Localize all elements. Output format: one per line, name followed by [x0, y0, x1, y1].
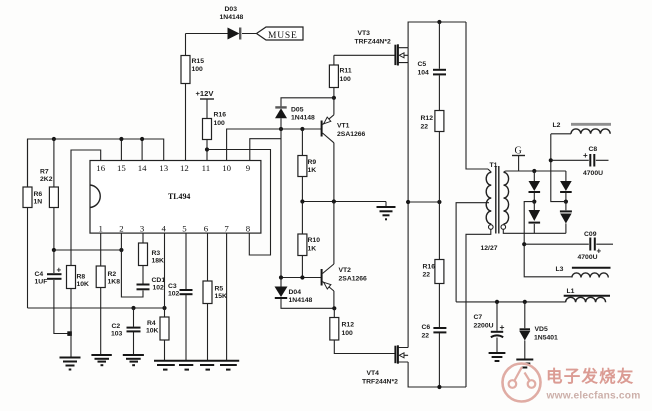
svg-text:VT4: VT4 — [367, 370, 380, 377]
ground G6 below C7 — [489, 353, 506, 361]
node D05 base junction — [279, 127, 283, 131]
node top rail left diode junction — [532, 169, 536, 173]
elecfans logo icon — [503, 364, 541, 402]
node C7 junction — [495, 300, 499, 304]
wire pin 2 down — [121, 233, 143, 297]
svg-text:R4: R4 — [147, 320, 156, 327]
svg-text:R11: R11 — [340, 68, 352, 75]
wire pin 3 to R3 — [142, 233, 144, 243]
svg-text:TL494: TL494 — [168, 192, 190, 201]
node bus-pin15 junction — [119, 137, 123, 141]
node half-bridge mid junction — [406, 200, 410, 204]
svg-text:L2: L2 — [553, 122, 561, 129]
svg-text:C09: C09 — [584, 231, 597, 238]
wire primary center tap — [456, 203, 489, 302]
wire bridge mid-right to C8 node — [551, 134, 566, 202]
svg-text:1N4148: 1N4148 — [291, 115, 315, 122]
ground G2 below R2 — [91, 355, 111, 365]
node VT1 collector rail junction — [332, 199, 336, 203]
node R16 pin11 junction — [205, 147, 209, 151]
diode VD5 1N5401 — [519, 302, 558, 359]
svg-text:100: 100 — [340, 76, 352, 83]
wire pin 6 to R5 — [207, 233, 209, 281]
diode D05 1N4148 — [275, 98, 334, 129]
ground G1 below R8 — [60, 358, 81, 370]
resistor R5 — [203, 281, 227, 360]
wire pin 4 down to rail — [164, 233, 166, 308]
resistor R8 — [67, 266, 90, 358]
wire bridge mid-left to L3 — [524, 202, 572, 277]
ground G3 below C2 — [123, 355, 144, 365]
svg-text:VD5: VD5 — [535, 326, 548, 333]
node pin2 rail junction — [119, 248, 123, 252]
svg-text:TRF244N*2: TRF244N*2 — [362, 379, 398, 386]
node C09 line junction — [522, 242, 526, 246]
capacitor C7 — [474, 302, 505, 353]
svg-text:13: 13 — [159, 163, 168, 173]
svg-text:R2: R2 — [108, 271, 117, 278]
svg-text:100: 100 — [214, 120, 226, 127]
svg-text:16: 16 — [96, 163, 105, 173]
svg-text:104: 104 — [418, 70, 430, 77]
diode VD2 bridge bottom-left — [529, 202, 541, 234]
svg-text:C5: C5 — [418, 61, 427, 68]
node D04 top junction — [279, 275, 283, 279]
resistor R11 — [329, 55, 351, 98]
resistor R7 — [40, 139, 58, 250]
wire left rail R6 to C2,R4 — [28, 307, 165, 309]
ground G7 below VD5 — [516, 360, 533, 368]
svg-text:R16: R16 — [214, 112, 227, 119]
svg-text:C8: C8 — [589, 146, 598, 153]
wire L2 left to C8 node — [551, 133, 571, 135]
svg-text:R12: R12 — [342, 322, 355, 329]
wire pin10 to VT1 base — [227, 129, 321, 161]
svg-text:2K2: 2K2 — [40, 176, 53, 183]
wire pin 1 to R2 — [100, 233, 102, 266]
transistor VT3 TRFZ44N*2 MOSFET — [355, 30, 409, 66]
wire VT3 source to VT4 drain — [407, 48, 409, 348]
svg-text:1K: 1K — [308, 246, 317, 253]
svg-text:10K: 10K — [77, 281, 90, 288]
node R4 pin4 junction — [162, 306, 166, 310]
inductor L1 — [564, 288, 610, 302]
svg-text:9: 9 — [246, 163, 251, 173]
node bottom rail C6 junction — [437, 385, 441, 389]
transistor VT4 TRF244N*2 MOSFET — [362, 345, 408, 385]
svg-text:18K: 18K — [152, 258, 165, 265]
svg-text:T1: T1 — [490, 162, 498, 169]
node R10 bottom junction — [300, 275, 304, 279]
svg-text:C4: C4 — [35, 271, 44, 278]
transistor VT1 2SA1266 — [322, 98, 366, 202]
wire pin9 net down to VT2 base line — [281, 129, 321, 278]
svg-text:+: + — [597, 247, 602, 256]
svg-text:2200U: 2200U — [474, 323, 494, 330]
ground G5 mid rail — [377, 202, 396, 220]
node bridge mid-left junction — [532, 200, 536, 204]
node bus-R7 junction — [52, 137, 56, 141]
svg-text:8: 8 — [246, 224, 251, 234]
wire secondary top rail — [506, 170, 566, 172]
wire pin9 jog — [250, 139, 281, 161]
transistor VT2 2SA1266 — [322, 202, 367, 309]
svg-text:4700U: 4700U — [583, 170, 603, 177]
svg-text:102: 102 — [153, 285, 165, 292]
resistor R6 — [23, 139, 42, 308]
resistor R15 — [181, 34, 204, 161]
diode VD1 bridge top-left — [529, 171, 541, 202]
svg-text:1K: 1K — [308, 167, 317, 174]
resistor R16 22 — [423, 202, 444, 327]
wire R11 to VT3 gate — [334, 54, 395, 56]
inductor L3 — [556, 266, 611, 278]
svg-text:电子发烧友: 电子发烧友 — [546, 366, 635, 386]
svg-text:102: 102 — [168, 291, 180, 298]
resistor R12 22 — [421, 111, 444, 203]
node G tap — [512, 146, 525, 172]
wire pin 7 to ground bar — [226, 233, 228, 360]
capacitor C4 — [35, 250, 70, 334]
svg-text:R9: R9 — [308, 159, 317, 166]
svg-text:11: 11 — [202, 163, 210, 173]
svg-text:R10: R10 — [308, 237, 321, 244]
svg-text:1UF: 1UF — [35, 279, 48, 286]
svg-text:R8: R8 — [77, 274, 86, 281]
wire bridge bottom rail to secondary bottom — [503, 229, 566, 233]
svg-text:100: 100 — [342, 330, 354, 337]
wire VT4 source to bottom rail — [408, 362, 466, 387]
transformer T1 — [481, 162, 509, 252]
svg-text:C2: C2 — [112, 323, 121, 330]
svg-text:VT2: VT2 — [339, 267, 352, 274]
svg-text:D03: D03 — [225, 6, 238, 13]
svg-text:+12V: +12V — [196, 89, 215, 98]
svg-text:D05: D05 — [291, 107, 304, 114]
resistor R9 — [298, 129, 317, 202]
resistor R3 — [139, 243, 165, 284]
wire pin 5 to C3 — [185, 233, 187, 289]
wire primary top from top rail — [466, 22, 488, 169]
svg-text:4: 4 — [161, 224, 166, 234]
svg-text:1N: 1N — [34, 199, 43, 206]
wire mid rail to divider — [408, 201, 439, 203]
svg-text:22: 22 — [422, 333, 430, 340]
wire MUSE line — [186, 33, 257, 35]
node R7-C4 junction — [52, 248, 56, 252]
svg-text:1: 1 — [98, 224, 102, 234]
svg-text:C7: C7 — [474, 314, 483, 321]
node bus-pin14 junction — [140, 137, 144, 141]
capacitor C6 — [422, 324, 447, 387]
resistor R16 — [203, 112, 227, 161]
svg-text:2SA1266: 2SA1266 — [339, 276, 368, 283]
resistor R10 — [298, 202, 320, 278]
wire pin 16 to R8 — [71, 150, 101, 266]
node C8 L2 junction — [549, 158, 553, 162]
capacitor C2 — [111, 308, 141, 355]
wire primary bottom to bottom rail — [466, 229, 491, 387]
svg-text:7: 7 — [224, 224, 229, 234]
svg-text:2: 2 — [119, 224, 123, 234]
svg-text:3: 3 — [140, 224, 145, 234]
inductor L2 — [553, 122, 612, 134]
svg-text:1K8: 1K8 — [108, 279, 121, 286]
resistor R4 — [146, 308, 169, 360]
node VT2 emitter R12 junction — [332, 306, 336, 310]
node MUSE tag — [257, 27, 304, 41]
svg-text:R7: R7 — [40, 169, 49, 176]
svg-text:+: + — [500, 322, 505, 332]
node C2 junction — [131, 306, 135, 310]
svg-text:L1: L1 — [567, 288, 575, 295]
wire output line to L1 — [456, 301, 565, 303]
svg-text:TRFZ44N*2: TRFZ44N*2 — [355, 39, 391, 46]
svg-text:C3: C3 — [168, 283, 177, 290]
svg-text:R16: R16 — [423, 264, 436, 271]
svg-text:R6: R6 — [34, 191, 43, 198]
wire VT3 drain to top rail — [408, 22, 466, 48]
op-amp U1 TL494 IC body — [90, 161, 261, 234]
svg-text:22: 22 — [423, 272, 431, 279]
svg-text:C6: C6 — [422, 324, 431, 331]
capacitor C3 — [168, 283, 193, 360]
svg-text:CD1: CD1 — [152, 277, 166, 284]
svg-text:6: 6 — [204, 224, 209, 234]
wire mid ground rail — [302, 201, 386, 203]
diode VD4 bridge bottom-right — [560, 202, 572, 234]
svg-text:+: + — [583, 151, 588, 160]
node C4-R8 square junction — [67, 331, 72, 336]
node R9 rail junction — [300, 199, 304, 203]
svg-text:R12: R12 — [421, 115, 434, 122]
node +12V supply — [196, 89, 215, 119]
wire rail pin2 feedback — [54, 249, 122, 251]
node VT1 emitter top junction — [332, 96, 336, 100]
node VD5 junction — [523, 300, 527, 304]
svg-text:2SA1266: 2SA1266 — [337, 131, 366, 138]
svg-text:L3: L3 — [556, 266, 564, 273]
svg-text:+: + — [57, 266, 62, 275]
svg-text:D04: D04 — [289, 289, 302, 296]
svg-text:1N4148: 1N4148 — [220, 14, 244, 21]
diode VD3 bridge top-right — [560, 171, 572, 202]
node R9 top junction — [300, 127, 304, 131]
wire pin11 to pin8 loop — [207, 150, 271, 256]
svg-text:12: 12 — [180, 163, 189, 173]
svg-text:10K: 10K — [146, 328, 159, 335]
node divider mid junction — [437, 200, 441, 204]
svg-text:R5: R5 — [215, 286, 224, 293]
node bridge mid-right junction — [564, 200, 568, 204]
svg-text:100: 100 — [192, 66, 204, 73]
resistor R12 — [330, 308, 395, 353]
svg-text:1N4148: 1N4148 — [289, 297, 313, 304]
svg-text:R15: R15 — [192, 58, 205, 65]
svg-text:12/27: 12/27 — [481, 245, 498, 252]
svg-text:R3: R3 — [152, 250, 161, 257]
svg-text:VT3: VT3 — [358, 30, 371, 37]
resistor R2 — [96, 266, 120, 355]
svg-text:1N5401: 1N5401 — [534, 335, 558, 342]
diode D03 1N4148 — [220, 6, 244, 40]
svg-text:4700U: 4700U — [578, 254, 598, 261]
diode D04 1N4148 — [275, 278, 335, 309]
svg-text:15K: 15K — [215, 293, 228, 300]
wire top bus pins 13,14,15 to R6,R7 — [28, 139, 164, 187]
svg-text:10: 10 — [222, 163, 231, 173]
node top rail C5 junction — [437, 20, 441, 24]
capacitor C5 — [418, 22, 447, 111]
svg-text:5: 5 — [182, 224, 187, 234]
ground G4 shared bar — [154, 361, 239, 370]
svg-text:14: 14 — [138, 163, 147, 173]
capacitor C8 — [551, 146, 609, 177]
svg-text:103: 103 — [111, 331, 123, 338]
svg-text:MUSE: MUSE — [268, 31, 298, 41]
svg-text:G: G — [515, 146, 522, 157]
svg-text:VT1: VT1 — [337, 123, 350, 130]
capacitor CD1 — [137, 277, 166, 292]
svg-text:15: 15 — [117, 163, 126, 173]
svg-text:22: 22 — [421, 124, 429, 131]
svg-text:www.elecfans.com: www.elecfans.com — [546, 391, 641, 402]
capacitor C09 — [524, 231, 613, 261]
